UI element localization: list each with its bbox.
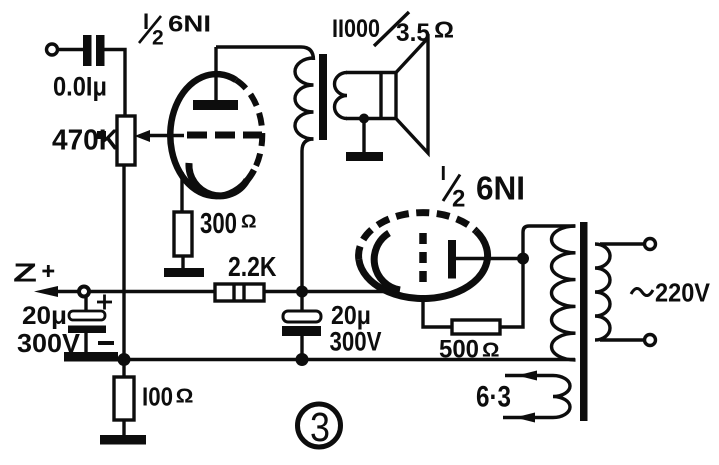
label V1b half 6N1: [441, 163, 526, 213]
svg-text:300V: 300V: [330, 327, 382, 357]
capacitor C2 20u lead: [84, 296, 87, 312]
svg-text:Z: Z: [13, 258, 37, 288]
svg-text:Ω: Ω: [241, 212, 257, 232]
tube V1b grid dashed: [419, 233, 427, 284]
R4 leads: [122, 359, 125, 437]
svg-text:2.2K: 2.2K: [228, 251, 277, 282]
wire junction to HV winding: [523, 226, 575, 258]
terminal 220V bottom: [645, 335, 656, 346]
svg-text:470K: 470K: [52, 125, 119, 157]
resistor R4 100ohm: [114, 377, 134, 420]
power transformer T2 core: [580, 222, 588, 421]
capacitor C1 0.01u: [83, 35, 105, 66]
resistor R2 300ohm: [174, 212, 192, 256]
label T1 11000/3.5 ohm: [332, 12, 454, 47]
label V1a half 6N1: [139, 9, 211, 50]
ground under R4: [100, 435, 146, 445]
chassis bar under C2: [64, 352, 118, 362]
resistor R5 500ohm: [452, 320, 500, 334]
wire R5 to plate junction: [500, 258, 523, 327]
speaker ground junction: [359, 114, 369, 124]
potentiometer R1 470K body: [117, 116, 135, 165]
svg-text:Ω: Ω: [482, 340, 500, 362]
svg-text:6·3: 6·3: [476, 381, 511, 414]
output transformer T1 primary winding: [295, 58, 314, 139]
wire input to C1: [57, 48, 84, 51]
B+ arrow left: [34, 286, 78, 297]
B+ rail left segment: [90, 290, 215, 293]
junction C3 ground: [296, 353, 309, 366]
T2 primary terminals: [600, 244, 644, 340]
resistor R3 2.2K: [215, 284, 264, 301]
wire T1 primary bottom to B+ junction: [302, 139, 314, 291]
svg-text:20μ: 20μ: [22, 302, 67, 330]
capacitor C2 20u 300V: [68, 311, 106, 353]
svg-text:Ω: Ω: [176, 386, 194, 408]
svg-text:I: I: [441, 163, 447, 185]
tube V1a plate: [193, 47, 238, 110]
speaker LS1 voice coil: [335, 73, 398, 119]
tube V1b envelope dashed top: [359, 213, 476, 260]
tube V1a cathode: [189, 163, 247, 196]
svg-text:220V: 220V: [655, 280, 710, 308]
tube V1a envelope solid: [170, 74, 254, 196]
tube V1b cathode: [374, 233, 400, 290]
tube V1b envelope solid: [359, 231, 488, 299]
junction ground rail left: [118, 353, 131, 366]
output transformer T1 core: [319, 54, 327, 140]
label C3 20u 300V: [330, 300, 382, 357]
label C2 20u 300V: [17, 302, 81, 358]
wire grid to R5: [423, 295, 452, 327]
ground under R2: [164, 268, 204, 277]
svg-text:II000: II000: [332, 15, 380, 43]
svg-text:Ω: Ω: [434, 17, 454, 43]
svg-text:6NI: 6NI: [476, 170, 525, 207]
heater leads with arrows: [503, 371, 553, 423]
svg-text:500: 500: [439, 336, 479, 364]
svg-text:I00: I00: [142, 382, 173, 412]
speaker LS1 frame and cone: [381, 38, 428, 153]
R2 ground lead: [181, 256, 184, 270]
tube V1a envelope dashed: [236, 80, 262, 170]
capacitor C2 20u 300V plus sign: [97, 295, 112, 310]
figure number 3: [298, 404, 341, 450]
junction plate node: [517, 253, 529, 265]
svg-text:300: 300: [200, 208, 237, 240]
wire C1 to grid node: [104, 50, 125, 118]
svg-text:6NI: 6NI: [168, 11, 211, 37]
power transformer T2 HV winding: [552, 226, 576, 360]
svg-text:2: 2: [152, 27, 164, 50]
B+ rail middle segment: [264, 290, 390, 293]
svg-text:2: 2: [452, 186, 465, 213]
label 220V: [631, 288, 653, 295]
junction B+ node: [296, 286, 308, 298]
speaker ground: [346, 118, 383, 161]
svg-text:0.0Iμ: 0.0Iμ: [53, 72, 107, 102]
wire cathode V1a to R2: [180, 172, 183, 212]
tube V1b plate: [448, 240, 523, 279]
input terminal J1: [47, 44, 58, 55]
ground rail: [112, 358, 575, 361]
terminal 220V top: [645, 239, 656, 250]
svg-text:3: 3: [310, 404, 330, 450]
capacitor C2 minus sign: [98, 341, 114, 345]
wire pot bottom to ground rail: [122, 165, 125, 359]
capacitor C3 20u 300V: [282, 296, 321, 359]
T2 heater winding 6.3: [553, 376, 570, 418]
potentiometer wiper arrow: [135, 130, 185, 142]
T2 primary 220V winding: [595, 244, 610, 340]
wire plate to output transformer: [216, 47, 314, 60]
node terminal on B+: [79, 287, 89, 297]
svg-text:20μ: 20μ: [331, 300, 371, 330]
tube V1a grid dashed: [187, 132, 262, 139]
